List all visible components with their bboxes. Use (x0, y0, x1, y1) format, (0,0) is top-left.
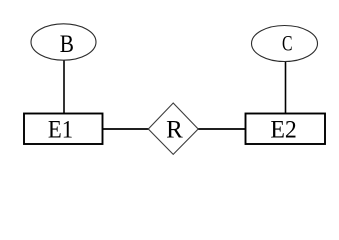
entity E2 (246, 114, 326, 145)
attribute ellipse C (252, 26, 318, 62)
svg-text:E1: E1 (48, 116, 73, 143)
relationship diamond R (148, 103, 198, 154)
wire B to E1 (63, 59, 65, 113)
entity E1 (24, 114, 103, 145)
wire R to E2 (198, 128, 245, 130)
svg-text:E2: E2 (270, 116, 297, 143)
svg-text:C: C (282, 30, 293, 55)
attribute ellipse B (31, 24, 96, 60)
svg-text:R: R (166, 116, 183, 143)
wire E1 to R (103, 128, 149, 130)
wire C to E2 (285, 61, 287, 113)
svg-text:B: B (60, 31, 74, 58)
